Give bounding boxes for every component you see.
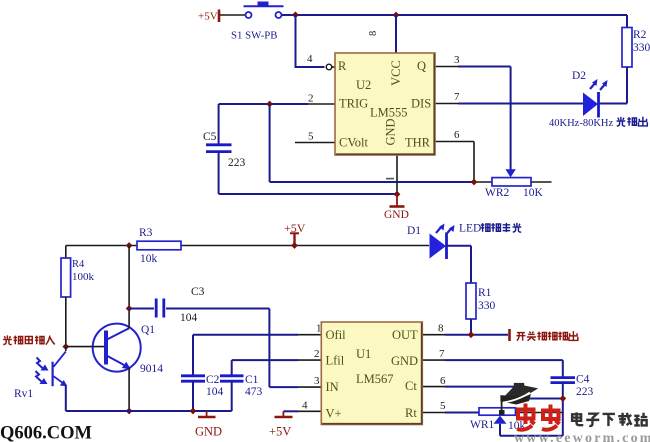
svg-text:C4: C4 [576, 374, 590, 386]
svg-text:Q1: Q1 [141, 324, 155, 336]
svg-text:2: 2 [314, 348, 320, 360]
svg-text:9014: 9014 [140, 363, 163, 375]
svg-text:THR: THR [405, 136, 431, 150]
svg-text:LM567: LM567 [356, 372, 394, 386]
svg-text:3: 3 [314, 375, 320, 387]
svg-text:GND: GND [384, 209, 409, 221]
svg-text:GND: GND [195, 425, 222, 439]
svg-text:R2: R2 [633, 29, 647, 41]
svg-text:104: 104 [206, 386, 224, 398]
svg-text:LED: LED [459, 223, 481, 235]
svg-text:www.eeworm.com: www.eeworm.com [514, 431, 650, 442]
svg-text:IN: IN [326, 380, 339, 394]
svg-text:OUT: OUT [392, 328, 418, 342]
svg-text:R3: R3 [139, 227, 153, 239]
svg-text:GND: GND [384, 118, 398, 145]
svg-text:GND: GND [391, 354, 418, 368]
svg-text:8: 8 [438, 323, 444, 335]
svg-text:U1: U1 [356, 347, 371, 361]
svg-text:7: 7 [439, 348, 445, 360]
svg-text:Ct: Ct [405, 379, 417, 393]
svg-text:U2: U2 [356, 78, 371, 92]
svg-text:WR2: WR2 [485, 187, 510, 199]
svg-text:473: 473 [245, 386, 263, 398]
svg-text:Q606.COM: Q606.COM [0, 424, 92, 442]
svg-text:TRIG: TRIG [339, 97, 368, 111]
svg-text:R4: R4 [72, 259, 85, 270]
svg-text:R1: R1 [478, 287, 492, 299]
svg-text:Rt: Rt [405, 406, 417, 420]
svg-text:330: 330 [478, 300, 496, 312]
svg-text:10k: 10k [140, 253, 158, 265]
svg-text:DIS: DIS [411, 97, 431, 111]
svg-text:WR1: WR1 [470, 419, 495, 431]
svg-text:+5V: +5V [198, 11, 218, 23]
svg-text:223: 223 [228, 157, 246, 169]
svg-text:330: 330 [633, 42, 650, 54]
svg-text:+5V: +5V [269, 425, 291, 439]
svg-text:C5: C5 [203, 131, 217, 143]
svg-text:2: 2 [308, 93, 314, 105]
svg-text:10K: 10K [523, 187, 544, 199]
svg-text:V+: V+ [326, 407, 342, 421]
svg-text:104: 104 [180, 312, 198, 324]
svg-text:CVolt: CVolt [339, 136, 368, 150]
svg-text:6: 6 [454, 129, 460, 141]
svg-text:Q: Q [417, 59, 426, 73]
svg-text:223: 223 [576, 386, 594, 398]
svg-text:S1 SW-PB: S1 SW-PB [231, 30, 278, 42]
svg-text:D1: D1 [407, 225, 421, 237]
svg-text:7: 7 [454, 91, 460, 103]
svg-text:C2: C2 [206, 374, 220, 386]
svg-text:C1: C1 [245, 374, 259, 386]
svg-text:3: 3 [454, 54, 460, 66]
svg-text:40KHz-80KHz: 40KHz-80KHz [549, 118, 613, 129]
svg-text:R: R [338, 59, 347, 73]
svg-text:5: 5 [308, 131, 314, 143]
svg-text:4: 4 [307, 53, 313, 65]
svg-text:Lfil: Lfil [326, 354, 345, 368]
svg-text:D2: D2 [572, 70, 586, 82]
svg-text:Rv1: Rv1 [14, 388, 33, 400]
svg-text:8: 8 [368, 31, 379, 36]
svg-text:Ofil: Ofil [326, 328, 347, 342]
svg-text:100k: 100k [72, 271, 95, 283]
svg-text:6: 6 [440, 375, 446, 387]
svg-text:5: 5 [440, 400, 446, 412]
svg-text:LM555: LM555 [370, 106, 408, 120]
svg-text:VCC: VCC [389, 60, 403, 86]
svg-text:C3: C3 [191, 286, 205, 298]
svg-text:4: 4 [302, 400, 308, 412]
